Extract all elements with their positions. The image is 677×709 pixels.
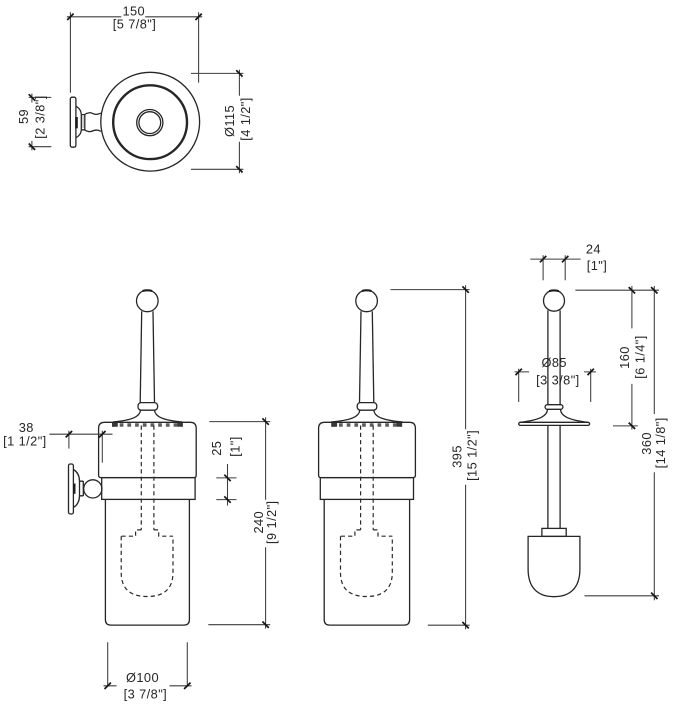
svg-text:Ø85: Ø85 [541, 355, 566, 370]
svg-text:Ø100: Ø100 [126, 670, 159, 685]
svg-text:[5 7/8"]: [5 7/8"] [113, 17, 156, 32]
svg-text:[3 7/8"]: [3 7/8"] [124, 687, 167, 702]
svg-text:59: 59 [16, 109, 31, 124]
svg-text:[6 1/4"]: [6 1/4"] [633, 335, 648, 378]
svg-text:[2 3/8"]: [2 3/8"] [33, 95, 48, 138]
svg-text:38: 38 [19, 420, 34, 435]
svg-text:[3 3/8"]: [3 3/8"] [536, 373, 579, 388]
svg-text:[14 1/8"]: [14 1/8"] [653, 417, 668, 468]
svg-text:395: 395 [450, 445, 465, 468]
svg-text:[9 1/2"]: [9 1/2"] [264, 500, 279, 543]
svg-text:[1"]: [1"] [587, 258, 607, 273]
svg-text:[1 1/2"]: [1 1/2"] [3, 434, 46, 449]
svg-text:[15 1/2"]: [15 1/2"] [464, 430, 479, 481]
svg-text:25: 25 [209, 441, 224, 456]
svg-text:160: 160 [617, 346, 632, 369]
svg-text:[1"]: [1"] [228, 436, 243, 456]
svg-text:360: 360 [639, 432, 654, 455]
svg-text:Ø115: Ø115 [222, 105, 237, 137]
svg-text:24: 24 [586, 241, 601, 256]
svg-text:[4 1/2"]: [4 1/2"] [238, 97, 253, 140]
